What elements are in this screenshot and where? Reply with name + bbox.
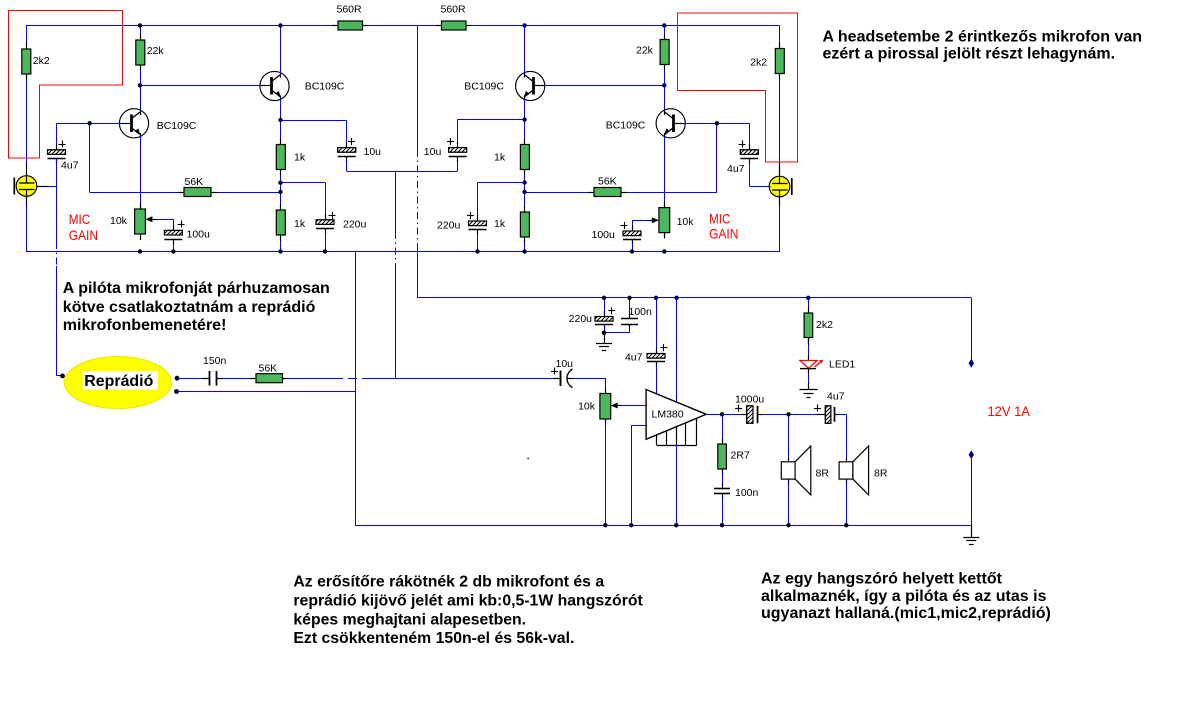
label 2R7 (731, 450, 750, 462)
label 10k right (677, 216, 695, 228)
transistor Q3 BC109C (mirrored) (516, 71, 545, 101)
wire 100u bottom to rail (173, 243, 175, 252)
wire 56K right feedback (525, 123, 717, 192)
svg-text:MIC: MIC (69, 211, 91, 227)
svg-text:56K: 56K (259, 363, 278, 375)
svg-text:BC109C: BC109C (157, 120, 197, 132)
wire mix bus between 10u caps (347, 160, 458, 172)
label 56K series input (259, 363, 278, 375)
label 150n (203, 355, 227, 367)
label plus 1000u (735, 405, 742, 412)
resistor R 2k2 LED (804, 298, 813, 344)
resistor R 22k right (660, 34, 669, 70)
wire amplifier ground rail (355, 525, 971, 527)
svg-text:BC109C: BC109C (464, 81, 504, 93)
capacitor C 100u left (164, 225, 182, 245)
resistor R 1k right lower (520, 206, 529, 243)
wire Q4 emitter down to pot (664, 137, 666, 208)
node junction rail 100u left (171, 249, 175, 253)
node junction Reprádió out top terminal (175, 376, 180, 381)
label 100n supply (629, 306, 653, 318)
wire 10u right tap (458, 120, 525, 149)
node junction rail 1k left (278, 249, 282, 253)
label 8R speaker1 (816, 468, 830, 480)
wire top supply rail (26, 25, 780, 27)
svg-text:560R: 560R (337, 4, 363, 16)
svg-text:reprádió kijövő jelét ami kb:0: reprádió kijövő jelét ami kb:0,5-1W hang… (293, 593, 643, 610)
wire Q3 base line (544, 85, 664, 87)
label plus 4u7 right (739, 141, 746, 148)
capacitor C 100n zobel (714, 473, 730, 499)
wire 12V negative to ground rail (971, 459, 973, 525)
svg-text:Reprádió: Reprádió (84, 373, 153, 390)
svg-text:ugyanazt hallaná.(mic1,mic2,re: ugyanazt hallaná.(mic1,mic2,reprádió) (761, 605, 1051, 622)
label 4u7 right (727, 163, 745, 175)
svg-text:2k2: 2k2 (33, 55, 50, 67)
label 10u left (364, 146, 382, 158)
capacitor C 4u7 left (48, 123, 66, 164)
label 4u7 left (61, 160, 79, 172)
wire Q3 emitter chain (524, 99, 526, 252)
connector 12V negative terminal (diamond) (969, 450, 974, 459)
svg-text:56K: 56K (185, 176, 204, 188)
wire 100u right bottom to rail (632, 243, 634, 252)
wire 100n zobel to ground rail (722, 497, 724, 525)
label 2k2 right (750, 57, 767, 69)
svg-text:8R: 8R (816, 468, 830, 480)
svg-text:220u: 220u (569, 313, 593, 325)
capacitor C 10u amplifier input (553, 369, 574, 388)
label 22k right (636, 45, 654, 57)
label plus 10u amplifier input (551, 368, 558, 375)
svg-text:Az erősítőre rákötnék 2 db mik: Az erősítőre rákötnék 2 db mikrofont és … (293, 574, 604, 591)
svg-text:10u: 10u (424, 146, 442, 158)
node junction ground rail speaker1 (786, 523, 790, 527)
wire 22k right branch (664, 26, 666, 111)
label 4u7 bypass (625, 352, 643, 364)
label 220u supply (569, 313, 593, 325)
node junction V+ rail 4u7 (654, 296, 658, 300)
wire mix bus drop to amplifier input (395, 171, 397, 378)
svg-text:12V 1A: 12V 1A (988, 403, 1031, 419)
svg-text:1000u: 1000u (735, 394, 764, 406)
wire 10u to volume pot (573, 378, 606, 394)
svg-text:LED1: LED1 (829, 359, 855, 371)
label 2k2 left (33, 55, 50, 67)
node Reprádió (yellow ellipse) (64, 357, 171, 409)
speaker LS2 8R (839, 446, 869, 495)
wire speaker1 to ground rail (788, 482, 790, 525)
resistor R 22k left (136, 34, 145, 71)
svg-text:A headsetembe 2 érintkezős mik: A headsetembe 2 érintkezős mikrofon van (823, 29, 1143, 46)
node junction Reprádió out bottom terminal (174, 389, 179, 394)
label BC109C Q3 (464, 81, 504, 93)
node junction V+ rail LED branch (806, 296, 810, 300)
resistor R 560R #2 (436, 21, 472, 30)
resistor R 2k2 left (22, 43, 31, 80)
capacitor C 100u right (623, 226, 641, 246)
ground symbol supply filter (596, 333, 612, 351)
wire 220u right tap (478, 183, 525, 222)
node junction V+ rail 220u (602, 296, 606, 300)
node junction 22k right rail (662, 23, 666, 27)
potentiometer 10k left MIC GAIN (135, 203, 157, 240)
label plus 4u7 speaker (814, 405, 821, 412)
capacitor C 150n (202, 371, 224, 386)
label 22k left (147, 45, 165, 57)
svg-text:1k: 1k (294, 218, 306, 230)
label 1k left upper (294, 151, 306, 163)
wire amplifier input line (287, 378, 554, 380)
svg-text:GAIN: GAIN (69, 227, 98, 243)
svg-text:BC109C: BC109C (606, 120, 646, 132)
wire output to speakers (761, 414, 818, 462)
wire preamp ground rail (26, 251, 780, 253)
red outline right (part to omit) (678, 13, 798, 162)
svg-text:4u7: 4u7 (625, 352, 643, 364)
node junction V+ rail 100n (627, 296, 631, 300)
node junction ground rail zobel (720, 523, 724, 527)
resistor R 1k left upper (276, 139, 285, 176)
node junction Q1 base / 56K feedback (87, 121, 91, 125)
label plus 10u left (348, 138, 355, 145)
label 100u right (592, 229, 616, 241)
capacitor C 220u supply filter (595, 298, 613, 333)
ground symbol main (963, 525, 979, 544)
microphone MIC2 right (757, 163, 792, 207)
node junction speaker1 tap (786, 412, 790, 416)
svg-text:10k: 10k (110, 215, 128, 227)
wire supply drop to amplifier V+ (417, 26, 419, 298)
wire 10u left tap (281, 120, 347, 148)
label 12V 1A (988, 403, 1031, 419)
wire 150n to 56K (222, 378, 252, 380)
svg-text:100n: 100n (629, 306, 653, 318)
svg-text:22k: 22k (636, 45, 654, 57)
svg-text:kötve csatlakoztatnám a reprád: kötve csatlakoztatnám a reprádió (63, 299, 316, 316)
wire Q2 collector to rail (280, 26, 282, 75)
resistor R 56K right (588, 188, 627, 197)
label 1k right upper (494, 151, 506, 163)
wire preamp ground to amp ground vertical (355, 252, 357, 526)
label 4u7 speaker (827, 391, 845, 403)
wire 56K left feedback (90, 123, 281, 192)
wire Q3 collector to rail (524, 26, 526, 75)
label 10k volume (578, 401, 596, 413)
label MIC GAIN left (69, 211, 98, 243)
wire 12V supply positive (971, 298, 973, 361)
label BC109C Q1 (157, 120, 197, 132)
svg-text:560R: 560R (441, 4, 467, 16)
svg-text:mikrofonbemenetére!: mikrofonbemenetére! (63, 317, 227, 334)
node junction 220u tap left (278, 181, 282, 185)
label 10k left (110, 215, 128, 227)
node junction Q2 collector rail (278, 23, 282, 27)
wire 4u7 to speaker2 (838, 414, 847, 462)
capacitor C 220u left (316, 214, 334, 234)
microphone MIC1 left (14, 163, 57, 207)
label BC109C Q4 (606, 120, 646, 132)
label 56K left (185, 176, 204, 188)
label 220u left (343, 219, 367, 231)
svg-text:GAIN: GAIN (709, 226, 738, 242)
label 560R #2 (441, 4, 467, 16)
label plus 4u7 left (59, 141, 66, 148)
svg-text:MIC: MIC (709, 210, 731, 226)
potentiometer 10k volume (600, 388, 622, 425)
annotation text pilot mic note (63, 280, 330, 334)
node junction supply filter ground (602, 331, 606, 335)
svg-text:10u: 10u (364, 146, 382, 158)
resistor R 1k right upper (520, 139, 529, 176)
svg-text:22k: 22k (147, 45, 165, 57)
node junction rail 220u right (475, 249, 479, 253)
wire 220u left bottom to rail (325, 232, 327, 252)
wire 4u7 bypass to LM380 (656, 365, 658, 394)
svg-text:220u: 220u (437, 220, 461, 232)
resistor R 2R7 zobel (718, 414, 727, 475)
wire 2k2 right branch vertical (779, 26, 781, 166)
label MIC GAIN right (709, 210, 738, 241)
node junction Q4 base / 56K right (715, 121, 719, 125)
capacitor C 4u7 bypass (647, 298, 665, 367)
wire mic1 hot to radio (dash-dot parallel connection) (57, 159, 64, 376)
label 100u left (187, 229, 211, 241)
svg-text:220u: 220u (343, 219, 367, 231)
transistor Q2 BC109C (260, 71, 289, 101)
wire Q1 emitter down to pot (140, 137, 142, 209)
wire pot wiper to LM380 input pin 2 (621, 405, 646, 407)
svg-text:150n: 150n (203, 355, 227, 367)
wire pot bottom to ground rail (605, 423, 607, 525)
wire LM380 output (706, 414, 748, 416)
node junction ground rail speaker2 (844, 523, 848, 527)
svg-text:Ezt csökkenteném 150n-el és 56: Ezt csökkenteném 150n-el és 56k-val. (293, 630, 574, 647)
svg-text:1k: 1k (294, 151, 306, 163)
svg-text:LM380: LM380 (652, 409, 684, 421)
connector 12V positive terminal (diamond) (969, 359, 974, 368)
node junction ground rail LM380 (674, 523, 678, 527)
transistor Q4 BC109C (mirrored) (656, 109, 685, 139)
svg-text:100n: 100n (735, 487, 759, 499)
wire Q2 base line (140, 85, 261, 87)
node junction 22k top rail (138, 23, 142, 27)
wire 220u right bottom to rail (477, 233, 479, 252)
wire amplifier V+ rail (417, 297, 971, 299)
capacitor C 100n supply (621, 298, 638, 330)
wire 100n bottom hook to ground node (604, 324, 630, 333)
wire pot wiper to 100u right (632, 220, 649, 231)
label BC109C Q2 (305, 81, 345, 93)
label 220u right (437, 220, 461, 232)
capacitor C 1000u output (742, 406, 763, 424)
wire Reprádió bottom return (177, 391, 356, 393)
wire LM380 ground pins to rail (676, 445, 678, 525)
svg-text:Az egy hangszóró helyett kett: Az egy hangszóró helyett kettőt (761, 571, 1003, 588)
svg-text:56K: 56K (598, 176, 617, 188)
capacitor C 4u7 right (740, 123, 758, 164)
annotation text headset note (823, 29, 1143, 63)
svg-text:10u: 10u (556, 358, 574, 370)
LED LED1 (800, 337, 823, 383)
node junction Q3 collector rail (522, 23, 526, 27)
node junction rail 10k right (662, 249, 666, 253)
annotation text speaker note (761, 571, 1051, 622)
svg-text:8R: 8R (874, 468, 888, 480)
node junction ground rail 10k pot (603, 523, 607, 527)
svg-text:4u7: 4u7 (727, 163, 745, 175)
svg-text:4u7: 4u7 (61, 160, 79, 172)
label 56K right (598, 176, 617, 188)
svg-text:2R7: 2R7 (731, 450, 750, 462)
wire pot wiper to 100u left (156, 219, 174, 231)
label 1k left lower (294, 218, 306, 230)
label 10u right (424, 146, 442, 158)
label 100n zobel (735, 487, 759, 499)
node junction rail 100u right (630, 249, 634, 253)
label plus 100u left (178, 221, 185, 228)
speaker LS1 8R (781, 446, 811, 495)
label 1000u (735, 394, 764, 406)
wire Q4 base line (685, 123, 749, 125)
wire 22k left branch (140, 26, 142, 111)
svg-text:BC109C: BC109C (305, 81, 345, 93)
node junction Reprádió left terminal (60, 374, 65, 379)
label plus 220u right (467, 212, 474, 219)
resistor R 1k left lower (276, 204, 285, 241)
label plus 100u right (621, 222, 628, 229)
label 1k right lower (494, 218, 506, 230)
transistor Q1 BC109C (119, 109, 148, 139)
node junction rail 1k right (522, 249, 526, 253)
label 560R #1 (337, 4, 363, 16)
wire Q2 emitter chain (280, 99, 282, 252)
resistor R 56K left (178, 188, 217, 197)
svg-text:4u7: 4u7 (827, 391, 845, 403)
node junction 56K tap right (522, 190, 526, 194)
node junction 220u tap right (522, 180, 526, 184)
label plus 4u7 bypass (660, 344, 667, 351)
svg-text:1k: 1k (494, 151, 506, 163)
annotation text amplifier note (293, 574, 643, 648)
node junction Q1 collector / 22k bottom / Q2 base (138, 83, 142, 87)
svg-text:ezért a pirossal jelölt részt: ezért a pirossal jelölt részt lehagynám. (823, 46, 1116, 63)
svg-text:alkalmaznék, így a pilóta és a: alkalmaznék, így a pilóta és az utas is (761, 588, 1047, 605)
resistor R 56K series input (250, 374, 289, 383)
stray mark dot (527, 457, 529, 459)
label 8R speaker2 (874, 468, 888, 480)
node junction 22k right bottom / Q4 collector (662, 83, 666, 87)
wire LM380 inverting input pin 6 grounded (631, 425, 646, 525)
node junction Q3 emitter 10u tap (522, 117, 526, 121)
svg-text:2k2: 2k2 (816, 319, 833, 331)
svg-text:A pilóta mikrofonját párhuzamo: A pilóta mikrofonját párhuzamosan (63, 280, 330, 297)
wire 4u7 right bottom to mic2 (750, 159, 770, 187)
svg-text:képes meghajtani alapesetben.: képes meghajtani alapesetben. (293, 611, 526, 628)
red outline left (part to omit) (9, 11, 123, 159)
svg-text:10k: 10k (578, 401, 596, 413)
svg-text:100u: 100u (592, 229, 616, 241)
node junction ground rail pin6 (629, 523, 633, 527)
label plus 220u left (329, 212, 336, 219)
wire mic1 bottom to ground rail (26, 205, 28, 252)
capacitor C 4u7 speaker coupling (817, 406, 840, 424)
potentiometer 10k right MIC GAIN (647, 202, 669, 239)
svg-text:100u: 100u (187, 229, 211, 241)
node junction LM380 output (720, 412, 724, 416)
wire speaker2 to ground rail (846, 482, 848, 525)
capacitor C 10u left (338, 142, 356, 162)
label plus 10u right (447, 138, 454, 145)
label 10u amplifier input (556, 358, 574, 370)
wire left 2k2 branch vertical (26, 26, 28, 166)
resistor R 560R #1 (332, 21, 368, 30)
capacitor C 10u right (449, 142, 467, 162)
svg-text:1k: 1k (494, 218, 506, 230)
wire V+ to LM380 pin 14 (676, 298, 678, 402)
capacitor C 220u right (469, 215, 487, 235)
op-amp U1 LM380 (646, 390, 706, 446)
resistor R 2k2 right (775, 43, 784, 80)
node junction V+ rail pin14 (674, 296, 678, 300)
label LED1 (829, 359, 855, 371)
wire Q1 base line (57, 123, 121, 125)
wire Reprádió top output to 150n (177, 378, 206, 380)
svg-text:2k2: 2k2 (750, 57, 767, 69)
node junction rail 10k left (138, 249, 142, 253)
ground symbol LED (800, 383, 818, 398)
node junction Q2 emitter 10u tap (278, 118, 282, 122)
wire 220u left tap (281, 183, 326, 221)
node junction rail 220u left (323, 249, 327, 253)
node junction 56K tap left (278, 190, 282, 194)
wire mic2 bottom to ground rail (779, 205, 781, 252)
svg-text:10k: 10k (677, 216, 695, 228)
label plus 220u supply (608, 307, 615, 314)
label 2k2 LED (816, 319, 833, 331)
